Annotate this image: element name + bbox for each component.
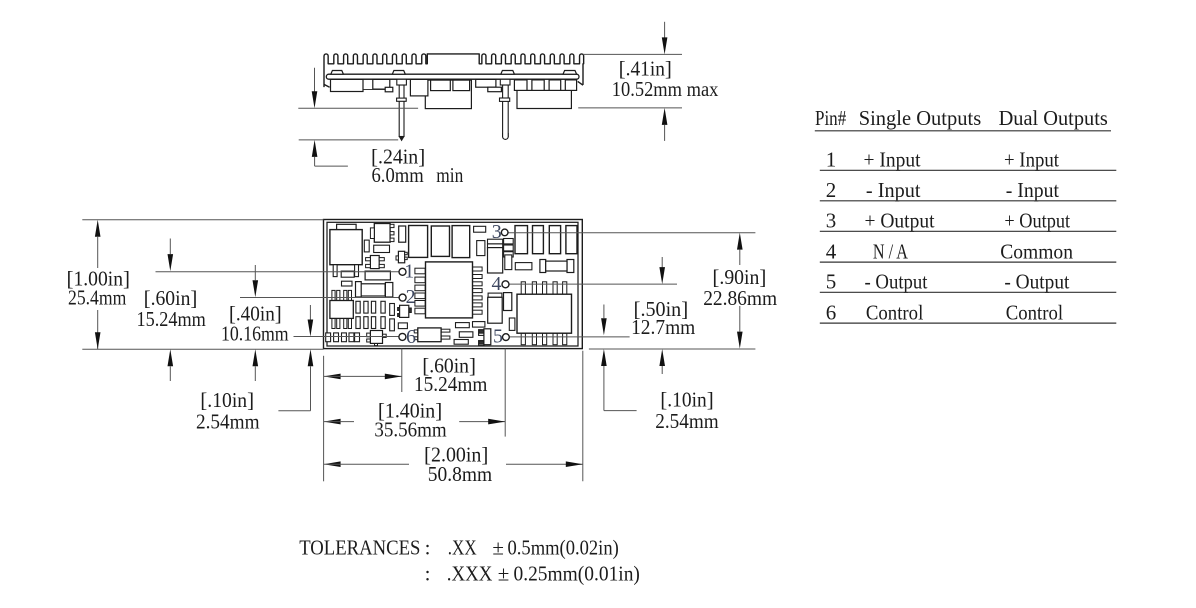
dimension [.50in] up arrow at bottom (659, 349, 665, 366)
dimension [.41in] 10.52mm max : top reference line (583, 53, 682, 55)
svg-text:10.52mm max: 10.52mm max (612, 77, 719, 101)
svg-text:2: 2 (406, 286, 416, 308)
svg-text::: : (425, 561, 431, 585)
left top extension line (82, 219, 323, 221)
left height down arrow (314, 68, 316, 93)
rect above inductor (365, 271, 390, 280)
svg-text:- Input: - Input (1006, 178, 1059, 202)
transformer with pin stubs (521, 282, 525, 294)
pin 2 row extension line (240, 297, 399, 299)
pin5 [.10in] down arrow (603, 305, 605, 319)
SOIC-8 IC (332, 290, 335, 300)
pad 2 circle (399, 294, 406, 301)
svg-text:5: 5 (826, 270, 837, 294)
right bottom extension line (589, 348, 756, 350)
SOT-23 mid (370, 256, 379, 269)
svg-text:min: min (436, 163, 463, 187)
svg-text:4: 4 (492, 273, 502, 295)
svg-text:2.54mm: 2.54mm (196, 410, 260, 434)
ceramic cap grid (356, 301, 360, 313)
svg-text:[: [ (712, 265, 719, 289)
svg-text:±: ± (498, 561, 510, 585)
pad 1 circle (399, 268, 406, 275)
svg-text:Single Outputs: Single Outputs (859, 106, 982, 130)
left height reference: bottom of module line (298, 107, 418, 109)
diode pack right of pad6 (414, 330, 418, 333)
heatsink right flange hook (578, 81, 583, 85)
bottom caps row (326, 333, 331, 342)
SOT with dark pads by pad2 (398, 308, 400, 311)
svg-text:22.86mm: 22.86mm (703, 286, 777, 310)
control IC body (415, 268, 425, 274)
svg-text:2.54mm: 2.54mm (655, 409, 718, 433)
vertical chip mid (477, 241, 485, 256)
svg-text:6.0mm: 6.0mm (372, 163, 424, 187)
svg-text:]: ] (759, 265, 766, 289)
svg-text:+ Output: + Output (865, 209, 935, 233)
side view: under-PCB component top line (330, 78, 577, 80)
dimension [.90in] vertical line with arrows (737, 233, 743, 250)
left bottom extension line (82, 348, 323, 350)
small chips bottom middle (456, 323, 470, 328)
svg-text:1: 1 (404, 260, 414, 282)
side view transformer body (517, 90, 571, 108)
svg-text::: : (425, 535, 431, 559)
svg-text:.90in: .90in (719, 265, 759, 289)
svg-text:25.4mm: 25.4mm (68, 286, 126, 310)
svg-text:12.7mm: 12.7mm (631, 315, 695, 339)
svg-text:±: ± (492, 535, 504, 559)
pad 4 circle (502, 281, 509, 288)
dimension [1.40in] 35.56mm horizontal (324, 419, 341, 425)
input caps group A (409, 226, 428, 258)
svg-text:0.25mm(0.01in): 0.25mm(0.01in) (514, 561, 640, 585)
vertical chip (364, 240, 369, 252)
top view: PCB outer border (324, 220, 583, 349)
tall component below pad4 (488, 293, 502, 297)
dimension [.40in] up arrow at bottom (253, 349, 259, 366)
svg-text:+ Input: + Input (1004, 148, 1059, 172)
output resistor with caps (540, 260, 546, 273)
cap with dark pads by pad5 (479, 330, 484, 333)
pin 4 row extension line (509, 283, 677, 285)
PCB right edge extension line below (582, 351, 584, 482)
svg-text:TOLERANCES: TOLERANCES (299, 535, 420, 559)
TO-252 regulator body (330, 230, 362, 265)
pad 3 circle (501, 229, 508, 236)
pin length line at pin tips (299, 139, 399, 141)
side view pin 2 (503, 85, 509, 137)
svg-text:Control: Control (866, 301, 924, 325)
side view components under PCB (425, 80, 471, 109)
svg-text:Pin#: Pin# (815, 106, 847, 130)
svg-text:15.24mm: 15.24mm (137, 307, 206, 331)
pad 5 circle (503, 334, 510, 341)
top view: PCB inner border (327, 222, 578, 346)
svg-text:5: 5 (493, 326, 503, 348)
svg-text:+ Input: + Input (864, 148, 921, 172)
pin 1 row extension line (156, 271, 400, 273)
resistor under TO-252 (341, 271, 354, 277)
dimension [.50in] down arrow at pin4 row (661, 257, 663, 268)
svg-text:10.16mm: 10.16mm (221, 321, 289, 345)
inductor with end caps (361, 284, 385, 296)
svg-text:.XX: .XX (448, 535, 477, 559)
svg-text:N / A: N / A (873, 240, 909, 264)
small resistor (342, 281, 353, 286)
pin length up arrow and leader (312, 140, 318, 157)
TO-252 legs (333, 265, 337, 277)
svg-text:1: 1 (826, 148, 837, 172)
dimension [1.00in] 25.4mm vertical line with arrows (95, 220, 101, 237)
svg-text:Dual Outputs: Dual Outputs (999, 106, 1108, 130)
dimension [.41in] arrows (664, 22, 666, 40)
svg-text:3: 3 (492, 221, 502, 243)
tall cap by pin1 (399, 226, 406, 242)
svg-text:Common: Common (1000, 240, 1073, 264)
pin5 column extension line below (504, 349, 506, 437)
dimension [.60in] 15.24mm horizontal (324, 374, 341, 380)
pin6 [.10in] up arrow with leader to text (308, 349, 314, 366)
dimension [2.00in] 50.8mm horizontal (324, 461, 341, 467)
dimension [.60in] down arrow at pin1 row (169, 239, 171, 255)
pin 5 row extension line (509, 336, 629, 338)
svg-text:35.56mm: 35.56mm (374, 418, 446, 442)
side view: heatsink fin profile (324, 54, 584, 87)
chip below (398, 323, 407, 329)
svg-text:- Output: - Output (1004, 270, 1069, 294)
pin table header underline (815, 130, 1111, 132)
pin1 column extension line below (401, 349, 403, 392)
dimension [.40in] down arrow at pin2 row (254, 265, 256, 280)
heatsink left flange hook (324, 84, 330, 87)
SOT-23 top area (374, 224, 390, 243)
pin 3 row extension line (508, 232, 755, 234)
chip resistor (374, 245, 390, 252)
side view: standoff bumps on PCB (331, 71, 344, 75)
side view: PCB substrate bar (326, 74, 579, 79)
svg-text:3: 3 (826, 209, 837, 233)
vertical chip below (505, 255, 512, 270)
svg-text:4: 4 (826, 240, 837, 264)
svg-text:6: 6 (826, 301, 837, 325)
TO-252 regulator tab (337, 224, 357, 229)
side view pin 1 (399, 85, 404, 137)
chip resistor mid (515, 263, 532, 270)
pin5 [.10in] up arrow with leader to text (601, 349, 607, 366)
svg-text:+ Output: + Output (1004, 209, 1070, 233)
pad 6 circle (399, 333, 406, 340)
dimension [.60in] up arrow at bottom (168, 349, 174, 366)
svg-text:]: ] (247, 388, 254, 412)
SOT-323 by pad1 (398, 251, 404, 262)
dimension [.41in] bottom reference line right segment (578, 107, 682, 109)
svg-text:50.8mm: 50.8mm (428, 462, 492, 486)
svg-text:6: 6 (406, 326, 416, 348)
three chips right (504, 239, 514, 244)
svg-text:.10in: .10in (207, 388, 247, 412)
svg-text:0.5mm(0.02in): 0.5mm(0.02in) (508, 535, 619, 559)
svg-text:[: [ (200, 388, 207, 412)
svg-text:2: 2 (826, 178, 837, 202)
svg-text:- Input: - Input (866, 178, 921, 202)
vertical chip left of transformer (509, 318, 515, 330)
tall component below pad3 (488, 239, 503, 244)
svg-text:.XXX: .XXX (447, 561, 493, 585)
PCB left edge extension line below (323, 356, 325, 482)
output caps group B (515, 226, 528, 254)
svg-text:- Output: - Output (865, 270, 928, 294)
chip right of caps A (474, 226, 486, 232)
SOT-23 bottom (367, 333, 371, 337)
pin6 [.10in] down arrow (309, 305, 311, 320)
svg-text:Control: Control (1006, 301, 1063, 325)
svg-text:15.24mm: 15.24mm (414, 372, 487, 396)
pin 6 row extension line (294, 336, 400, 338)
